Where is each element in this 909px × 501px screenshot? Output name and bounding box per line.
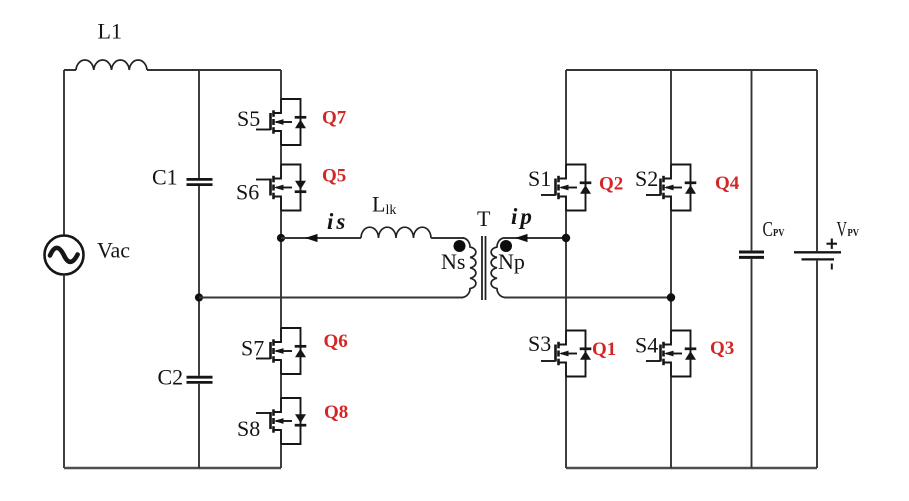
current arrow is	[305, 234, 318, 242]
transistor S5 (Q7)	[274, 99, 301, 145]
svg-text:S8: S8	[237, 416, 260, 441]
svg-text:Q2: Q2	[599, 174, 623, 195]
svg-text:Q5: Q5	[322, 166, 346, 187]
wire S2/S4 leg segments	[670, 70, 672, 468]
current arrow ip	[515, 234, 528, 242]
transistor S2 (Q4)	[664, 165, 691, 211]
svg-text:PV: PV	[773, 227, 785, 239]
svg-text:Q3: Q3	[710, 338, 734, 359]
transistor S1 (Q2)	[559, 165, 586, 211]
svg-text:Q1: Q1	[592, 339, 616, 360]
wire C-leg segment 3	[198, 384, 200, 468]
wire S1/S3 leg segments	[565, 70, 567, 468]
transistor S4 (Q3)	[664, 331, 691, 377]
wire Llk to Ns top	[431, 237, 464, 239]
polarity plus sign	[827, 239, 838, 249]
inductor Llk	[361, 227, 431, 238]
transformer T primary winding Np	[491, 238, 505, 297]
svg-text:V: V	[837, 217, 848, 241]
DC source VPV (battery)	[794, 252, 841, 259]
label CPV	[763, 217, 785, 241]
svg-text:C2: C2	[158, 365, 184, 390]
wire CPV leg lower	[751, 259, 753, 468]
wire VPV leg lower	[816, 261, 818, 468]
wire bottom-left horizontal	[64, 467, 281, 470]
wire C-leg segment 1	[198, 70, 200, 178]
capacitor C1	[187, 179, 213, 184]
svg-text:PV: PV	[848, 227, 860, 239]
wire VPV leg upper	[816, 70, 818, 251]
node secondary bridge midpoint	[277, 234, 285, 242]
svg-text:Ns: Ns	[441, 249, 465, 274]
wire S-leg segments	[280, 70, 282, 468]
wire Np top to primary bridge midpoint	[503, 237, 566, 239]
node AC midpoint junction	[195, 293, 203, 301]
svg-text:ip: ip	[511, 204, 535, 229]
svg-text:Np: Np	[498, 249, 525, 274]
wire CPV leg upper	[751, 70, 753, 250]
svg-text:Q8: Q8	[324, 402, 348, 423]
svg-text:T: T	[477, 206, 491, 231]
polarity minus tick	[831, 264, 833, 270]
node primary bridge midpoint B	[667, 293, 675, 301]
wire left leg lower	[63, 275, 65, 469]
svg-text:S3: S3	[528, 331, 551, 356]
svg-text:S4: S4	[635, 333, 658, 358]
svg-text:C: C	[763, 217, 774, 241]
svg-text:S5: S5	[237, 106, 260, 131]
svg-text:Q6: Q6	[324, 331, 348, 352]
wire top-left horizontal	[64, 69, 281, 71]
wire AC midpoint to Ns bottom	[199, 297, 463, 299]
inductor L1	[76, 60, 147, 70]
svg-text:Vac: Vac	[97, 238, 130, 263]
svg-text:Q7: Q7	[322, 108, 347, 129]
svg-text:Q4: Q4	[715, 173, 740, 194]
svg-text:L1: L1	[98, 19, 122, 44]
capacitor CPV	[739, 252, 764, 257]
node primary bridge midpoint A	[562, 234, 570, 242]
wire top-right horizontal	[566, 69, 817, 71]
AC source Vac	[45, 236, 84, 275]
svg-text:S1: S1	[528, 166, 551, 191]
svg-text:S6: S6	[236, 180, 259, 205]
svg-text:S2: S2	[635, 166, 658, 191]
wire left leg upper	[63, 70, 65, 236]
wire C-leg segment 2	[198, 186, 200, 376]
label VPV	[837, 217, 860, 241]
svg-text:S7: S7	[241, 336, 264, 361]
polarity dot Np	[500, 240, 512, 252]
transistor S7 (Q6)	[274, 328, 301, 374]
wire Np bottom to right leg midpoint	[505, 297, 672, 299]
svg-text:C1: C1	[152, 165, 178, 190]
svg-text:is: is	[327, 209, 348, 234]
wire secondary midpoint to Llk	[281, 237, 361, 239]
transformer T core	[482, 236, 486, 300]
capacitor C2	[187, 377, 213, 382]
transistor S8 (Q8)	[274, 398, 301, 444]
wire bottom-right horizontal	[566, 467, 817, 470]
transistor S3 (Q1)	[559, 331, 586, 377]
polarity dot Ns	[454, 240, 466, 252]
transformer T secondary winding Ns	[462, 238, 476, 297]
transistor S6 (Q5)	[274, 165, 301, 211]
